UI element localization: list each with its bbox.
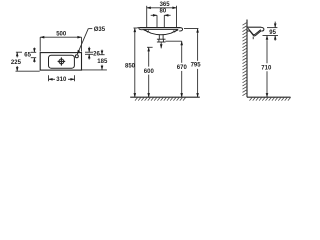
dimension 850: extension to basin	[138, 27, 141, 29]
front view: trap body right	[162, 39, 164, 42]
dimension 95: upper outside arrow	[274, 22, 276, 28]
side view: basin rim top line	[247, 26, 261, 28]
dimension 850: vertical line upper	[134, 28, 136, 33]
front view: 365 dimension left extension	[146, 6, 148, 28]
svg-text:850: 850	[125, 64, 136, 70]
dimension 225: bottom extension line	[16, 70, 40, 72]
svg-text:95: 95	[269, 30, 276, 36]
dimension 710: line below text	[266, 71, 268, 97]
dimension 185: line below text	[101, 65, 103, 70]
front view: basin rim top line	[140, 27, 181, 29]
svg-text:185: 185	[97, 59, 108, 65]
dimension 600: line below text	[148, 75, 150, 98]
side view: bowl curve	[248, 28, 261, 34]
dimension 670: line below text	[181, 71, 183, 97]
svg-text:500: 500	[56, 32, 67, 38]
front view: drain pipe left line	[158, 35, 160, 39]
side view: front edge roll	[261, 27, 264, 31]
tap hole leader line horizontal	[88, 28, 92, 30]
dimension 225: top tick	[16, 51, 22, 53]
svg-text:80: 80	[160, 9, 167, 15]
dimension 500: dimension line with arrows	[40, 36, 81, 38]
dimension 65: top tick	[31, 51, 36, 53]
dimension 185: bottom extension line	[82, 69, 107, 71]
front view: trap body left	[158, 39, 160, 42]
dimension 26: upper tick (deck edge extension)	[85, 51, 93, 53]
front view: floor line	[130, 96, 200, 98]
front view: trap flange bottom line	[157, 41, 166, 43]
plan view: drain symbol cross horizontal	[58, 60, 66, 62]
dimension 95: top tick	[267, 27, 277, 29]
front view: 80 dimension right outside arrow	[164, 14, 170, 16]
svg-text:600: 600	[144, 69, 155, 75]
dimension 65: upper outside arrow	[33, 48, 35, 53]
dimension 310: left extension tick	[48, 75, 50, 81]
dimension 795: extension line from rim edge	[184, 28, 198, 30]
front view: 80 dimension left tick	[156, 15, 158, 27]
side view: floor line	[247, 96, 291, 98]
dimension 600: top tick	[147, 46, 153, 48]
side view: floor hatching	[250, 97, 291, 100]
dimension 710: line above text	[266, 41, 268, 64]
dimension 795: upper arrow segment	[197, 29, 199, 34]
dimension 185: top tick	[99, 54, 104, 56]
dimension 185: upper outside arrow	[101, 50, 103, 55]
front view: drain pipe right line	[162, 35, 164, 39]
dimension 65: lower outside arrow	[33, 58, 35, 63]
svg-text:65: 65	[24, 52, 31, 58]
front view: 80 dimension right tick	[163, 15, 165, 27]
dimension 600: line above text	[148, 52, 150, 66]
dimension 710: upper arrow segment	[266, 36, 268, 41]
front view: trap flange top line	[157, 38, 166, 40]
front view: 80 dimension left outside arrow	[151, 14, 157, 16]
svg-text:225: 225	[11, 60, 22, 66]
side view: drain stub	[252, 37, 254, 40]
front view: 365 dimension right extension	[176, 6, 178, 28]
front view: 365 dimension line	[147, 7, 177, 9]
dimension 310: dimension line right segment	[68, 78, 75, 80]
plan view: basin outer rim rectangle	[40, 53, 81, 71]
dimension 670: upper arrow segment	[181, 41, 183, 46]
side view: wall hatching	[243, 22, 248, 95]
dimension 26: lower outside arrow	[88, 54, 90, 59]
plan view: tap hole circle	[75, 55, 78, 58]
plan view: drain symbol cross vertical	[60, 57, 62, 65]
front view: rim right fixing mark	[174, 30, 177, 32]
side view: wall line	[246, 20, 248, 98]
plan view: drain symbol circle	[59, 59, 64, 64]
plan view: inner bowl rounded rectangle	[49, 55, 75, 68]
dimension 670: extension line from trap	[166, 40, 182, 42]
svg-text:365: 365	[160, 2, 171, 8]
front view: waste pipe outlet arrow	[160, 42, 162, 48]
front view: basin rim under line	[143, 28, 179, 30]
dimension 850: vertical line lower	[134, 33, 136, 97]
dimension 600: upper arrow segment	[148, 47, 150, 52]
dimension 95: bottom tick	[263, 35, 279, 37]
dimension 500: left extension line	[39, 37, 41, 51]
dimension 26: lower tick (bowl edge extension)	[85, 53, 93, 55]
front view: basin right end roll	[179, 28, 182, 31]
dimension 225: upper arrow segment	[16, 52, 18, 57]
svg-text:310: 310	[56, 77, 67, 83]
front view: basin left end curve	[139, 28, 143, 30]
dimension 500: right extension line	[81, 37, 83, 51]
dimension 850: top tick	[134, 27, 138, 29]
dimension 310: right extension tick	[74, 75, 76, 81]
dimension 225: lower arrow segment	[16, 66, 18, 71]
dimension 310: dimension line left segment	[49, 78, 56, 80]
tap hole leader line diagonal	[77, 29, 88, 55]
svg-text:710: 710	[261, 66, 272, 72]
dimension 795: line below text	[197, 69, 199, 97]
dimension 95: lower outside arrow	[274, 36, 276, 41]
dimension 670: line above text	[181, 46, 183, 63]
svg-text:26: 26	[93, 51, 100, 57]
svg-text:Ø35: Ø35	[94, 27, 106, 33]
svg-text:795: 795	[191, 62, 202, 68]
front view: bowl bottom curve	[144, 30, 179, 35]
dimension 65: bottom tick	[31, 57, 36, 59]
side view: basin underside	[247, 31, 261, 36]
svg-text:670: 670	[177, 65, 188, 71]
front view: floor hatching	[135, 97, 186, 100]
front view: rim left fixing mark	[145, 30, 148, 32]
dimension 26: upper outside arrow	[88, 47, 90, 52]
dimension 795: line above text	[197, 34, 199, 61]
